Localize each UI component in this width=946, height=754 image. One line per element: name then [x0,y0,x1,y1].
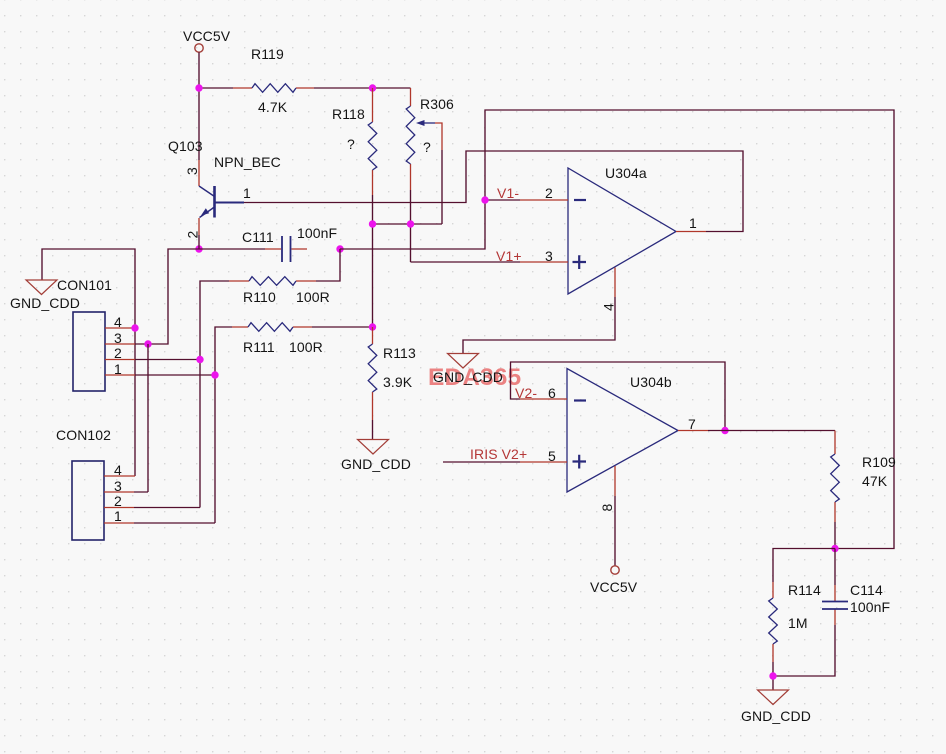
junction (Q103 emitter) [195,245,202,252]
ground GND_CDD (R113) [341,440,411,473]
op-amp U304b [567,369,678,493]
wire U304b pin8 [614,496,616,566]
junction (R118 bottom) [369,220,376,227]
wire output to R109 [708,430,835,432]
wire R110 / pin2 net [134,281,229,508]
resistor R114 [769,582,821,662]
wire Q103 base / U304a output loop [244,151,743,232]
wire V1- net [340,110,894,549]
svg-text:V1-: V1- [497,185,519,201]
svg-text:1: 1 [243,185,251,201]
svg-text:CON101: CON101 [57,277,112,293]
svg-text:4: 4 [601,303,617,311]
wire U304a pin4 ground [463,297,615,354]
power symbol VCC5V (top) [183,28,231,52]
junction (CON101 pin4 / ground column) [131,324,138,331]
wire feedback bottom [773,549,835,691]
svg-text:5: 5 [548,448,556,464]
wire R111 right [312,326,373,328]
svg-text:4: 4 [114,314,122,330]
svg-text:47K: 47K [862,473,888,489]
wire IRIS V2+ [443,461,520,463]
svg-text:8: 8 [599,503,615,511]
svg-text:?: ? [423,139,431,155]
wire R306 wiper [441,150,443,224]
pin U304a.3 [520,248,568,264]
svg-text:1M: 1M [788,615,808,631]
svg-text:C114: C114 [850,582,883,598]
svg-text:3.9K: 3.9K [383,374,413,390]
wire V1+ column [373,190,521,327]
connector CON101 [57,277,112,391]
pin CON101.2 [105,345,135,361]
pin CON102.2 [104,493,134,509]
svg-text:2: 2 [185,230,201,238]
svg-text:100nF: 100nF [297,225,337,241]
op-amp U304a [568,165,676,294]
junction (R111 / R113) [369,323,376,330]
svg-text:4: 4 [114,462,122,478]
connector CON102 [56,427,111,540]
capacitor C111 [242,225,337,262]
junction (C111 / R110 / V1-) [336,245,343,252]
svg-text:R118: R118 [332,106,365,122]
resistor R119 [233,46,314,115]
pin U304b.7 [678,416,708,432]
wire VCC5V net [199,52,411,160]
svg-text:R109: R109 [862,454,896,470]
junction (R119 / R118) [369,84,376,91]
svg-text:IRIS V2+: IRIS V2+ [470,446,527,462]
svg-text:4.7K: 4.7K [258,99,288,115]
pin U304b.6 [520,385,567,401]
svg-text:R110: R110 [243,289,276,305]
svg-text:3: 3 [545,248,553,264]
resistor R118 [332,88,377,195]
svg-text:3: 3 [114,478,122,494]
svg-text:VCC5V: VCC5V [590,579,638,595]
svg-text:GND_CDD: GND_CDD [741,708,811,724]
svg-text:3: 3 [114,330,122,346]
transistor Q103 [168,138,281,235]
svg-text:Q103: Q103 [168,138,203,154]
svg-text:GND_CDD: GND_CDD [10,295,80,311]
pin U304a.4 [601,268,617,311]
ground GND_CDD (CON101) [10,280,80,311]
pin U304b.8 [599,466,615,511]
pin CON101.3 [105,330,135,346]
junction (V1- tap) [481,196,488,203]
svg-text:VCC5V: VCC5V [183,28,231,44]
junction (VCC5V / R119) [195,84,202,91]
svg-text:R306: R306 [420,96,454,112]
pin CON101.4 [105,314,135,330]
svg-text:R114: R114 [788,582,821,598]
wire R109 bottom [834,522,836,549]
svg-text:1: 1 [114,508,122,524]
pin U304a.2 [520,185,568,201]
resistor R113 [368,327,416,420]
svg-text:GND_CDD: GND_CDD [341,456,411,472]
junction (CON101 pin2) [196,356,203,363]
svg-text:6: 6 [548,385,556,401]
svg-text:U304a: U304a [605,165,647,181]
svg-text:2: 2 [545,185,553,201]
junction (R306 bottom) [407,220,414,227]
junction (CON101 pin3) [144,340,151,347]
pin U304b.5 [520,448,567,464]
svg-text:?: ? [347,136,355,152]
svg-text:R113: R113 [383,345,416,361]
pin CON102.1 [104,508,134,524]
svg-text:C111: C111 [242,229,274,245]
svg-text:U304b: U304b [630,374,672,390]
junction (U304b output) [721,427,728,434]
wire V2- loop [511,362,726,431]
wire C111/R110 link [316,249,340,281]
pin CON102.3 [104,478,134,494]
wire CON102 pin3 riser [134,344,148,492]
svg-text:3: 3 [184,167,200,175]
junction (CON101 pin1) [211,371,218,378]
junction (R114 / C114 ground) [769,672,776,679]
svg-text:GND_CDD: GND_CDD [433,369,503,385]
resistor R109 [831,431,896,523]
svg-text:V1+: V1+ [496,248,522,264]
svg-text:7: 7 [688,416,696,432]
svg-text:100R: 100R [296,289,330,305]
capacitor C114 [822,582,890,625]
svg-text:100R: 100R [289,339,323,355]
power symbol VCC5V (bottom) [590,566,638,595]
wire emitter net [135,235,265,344]
svg-text:2: 2 [114,345,122,361]
svg-text:1: 1 [114,361,122,377]
svg-text:NPN_BEC: NPN_BEC [214,154,281,170]
pin CON101.1 [105,361,135,377]
wire R113 ground [372,420,374,439]
svg-text:2: 2 [114,493,122,509]
svg-text:R111: R111 [243,339,275,355]
svg-text:CON102: CON102 [56,427,111,443]
wire CON101 ground net [42,249,135,476]
svg-text:100nF: 100nF [850,599,890,615]
junction (R109 / R114 / C114) [831,545,838,552]
resistor R110 [229,277,330,305]
ground GND_CDD (U304a) [433,354,503,386]
pin CON102.4 [104,462,135,478]
svg-text:R119: R119 [251,46,284,62]
svg-text:1: 1 [689,215,697,231]
pin U304a.1 [676,215,706,232]
resistor R306 (trimmer) [406,88,454,190]
ground GND_CDD (R114) [741,690,811,724]
resistor R111 [232,323,323,355]
wire R111 / pin1 net [134,327,232,523]
